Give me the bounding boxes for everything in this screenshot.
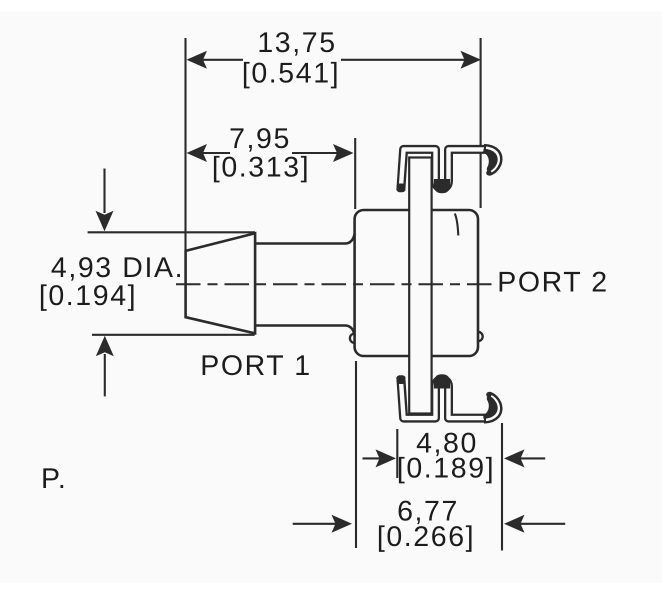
svg-text:[0.313]: [0.313] [212, 152, 310, 184]
dia upper extent line [88, 231, 255, 233]
dim 4,80 left arrow [363, 457, 393, 459]
svg-text:P.: P. [41, 463, 67, 495]
arrow left 13,75 [187, 51, 208, 69]
spring clip bottom [397, 374, 502, 422]
svg-text:PORT 2: PORT 2 [497, 267, 609, 299]
arrow left 7,95 [187, 144, 208, 162]
dim 4,80 extension line left [396, 429, 398, 478]
dim 4,80 / 6,77 extension line right [501, 423, 503, 551]
dia down arrow [103, 169, 105, 214]
svg-text:[0.189]: [0.189] [397, 453, 495, 485]
svg-text:7,95: 7,95 [229, 123, 291, 155]
spring clip top [397, 145, 502, 193]
svg-text:PORT 1: PORT 1 [200, 350, 312, 382]
clip bar vertical [409, 158, 431, 414]
arrow right 7,95 [333, 144, 354, 162]
dim 7,95 extension line right [354, 138, 356, 209]
right side bump [478, 332, 483, 341]
dia up arrow [104, 354, 106, 396]
body inner edge tick [455, 214, 459, 236]
stem bottom line [255, 326, 355, 336]
dim 6,77 right arrow [509, 523, 565, 525]
dia lower extent line [92, 334, 255, 336]
dim 7,95 line [189, 152, 230, 154]
svg-text:[0.541]: [0.541] [242, 58, 340, 90]
left side bump [350, 334, 355, 343]
svg-text:13,75: 13,75 [257, 27, 336, 59]
dim 13,75 extension line right [480, 38, 482, 208]
dim 6,77 left arrow [293, 523, 347, 525]
dim 6,77 extension line left [355, 361, 357, 548]
barb nozzle [186, 233, 256, 333]
body U1 (fitting body rounded square) [355, 210, 478, 356]
dim 4,80 right arrow [508, 457, 545, 459]
dim 13,75 line [189, 59, 243, 61]
svg-text:[0.266]: [0.266] [377, 521, 475, 553]
arrow right 13,75 [461, 51, 482, 69]
svg-text:[0.194]: [0.194] [39, 280, 137, 312]
dim 13,75 extension line left [184, 38, 186, 250]
stem top line [255, 234, 355, 244]
centerline dash-dot [176, 283, 494, 285]
